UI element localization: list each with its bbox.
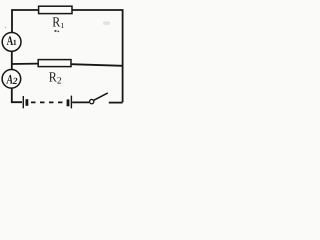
background xyxy=(0,0,132,114)
label R1 xyxy=(52,15,64,30)
wire: battery to switch xyxy=(72,101,89,103)
switch lever xyxy=(94,93,108,100)
ammeter A2 xyxy=(2,70,21,89)
svg-text:2: 2 xyxy=(12,77,18,87)
switch pivot circle xyxy=(90,99,94,103)
wire: A1 bottom to A2 top (with middle-rail junction) xyxy=(11,51,13,69)
label A1 xyxy=(7,33,17,48)
wire: middle rail left of R2 xyxy=(12,63,38,65)
label A2 xyxy=(6,72,18,87)
wire: middle rail right of R2 to right rail xyxy=(71,64,123,66)
battery cell 1 long plate xyxy=(22,96,24,108)
wire: top-left corner segment to R1 xyxy=(12,10,39,33)
resistor R2 xyxy=(38,60,71,67)
svg-text:2: 2 xyxy=(57,76,62,86)
wire: top rail right + right rail down xyxy=(72,10,123,102)
battery cell 2 short thick plate xyxy=(67,99,70,106)
resistor R1 xyxy=(39,6,72,13)
label R2 xyxy=(49,70,62,86)
ammeter A1 xyxy=(2,33,21,52)
svg-text:1: 1 xyxy=(13,38,17,47)
wire: A2 bottom to bottom-left corner xyxy=(12,88,22,102)
battery cell 1 short thick plate xyxy=(25,99,28,106)
scan speck noise xyxy=(5,22,110,33)
wire: switch to bottom-right corner xyxy=(109,102,123,104)
wire: dashed link between battery cells xyxy=(31,101,63,103)
battery cell 2 long plate xyxy=(70,96,72,109)
svg-text:1: 1 xyxy=(60,21,64,30)
